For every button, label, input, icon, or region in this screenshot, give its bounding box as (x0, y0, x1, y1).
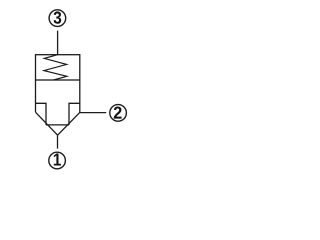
wire port 3 to spring chamber (57, 31, 59, 55)
poppet seat line (46, 124, 69, 126)
port label 2 (114, 106, 122, 118)
valve body left wall (35, 80, 37, 112)
port circle 2 (110, 105, 127, 122)
spring chamber box (36, 55, 80, 80)
spring (44, 55, 67, 80)
left seat notch (36, 103, 47, 125)
valve body right wall (79, 80, 81, 112)
port circle 1 (49, 152, 66, 169)
wire poppet to port 1 (57, 135, 59, 148)
right poppet diagonal (58, 112, 80, 135)
port circle 3 (49, 10, 66, 27)
port label 1 (54, 154, 61, 166)
wire body to port 2 (80, 112, 106, 114)
right seat notch (69, 103, 80, 125)
left poppet diagonal (36, 112, 58, 135)
port label 3 (54, 11, 62, 23)
